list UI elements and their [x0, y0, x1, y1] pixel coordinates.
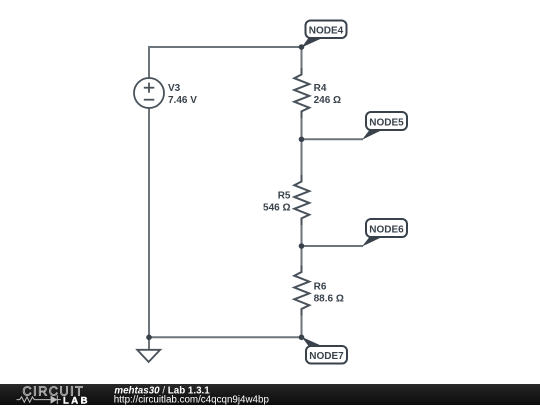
svg-text:V3: V3 [168, 83, 181, 94]
svg-text:7.46 V: 7.46 V [168, 95, 197, 106]
svg-text:NODE4: NODE4 [309, 26, 344, 37]
svg-text:246 Ω: 246 Ω [314, 95, 341, 106]
svg-text:546 Ω: 546 Ω [263, 203, 290, 214]
svg-text:NODE7: NODE7 [309, 351, 344, 362]
svg-text:NODE6: NODE6 [369, 225, 404, 236]
svg-text:R4: R4 [314, 83, 327, 94]
svg-text:NODE5: NODE5 [369, 118, 404, 129]
svg-text:88.6 Ω: 88.6 Ω [314, 294, 344, 305]
svg-text:LAB: LAB [63, 395, 90, 405]
svg-text:R6: R6 [314, 282, 327, 293]
svg-text:R5: R5 [278, 191, 291, 202]
svg-text:http://circuitlab.com/c4qcqn9j: http://circuitlab.com/c4qcqn9j4w4bp [114, 394, 270, 405]
